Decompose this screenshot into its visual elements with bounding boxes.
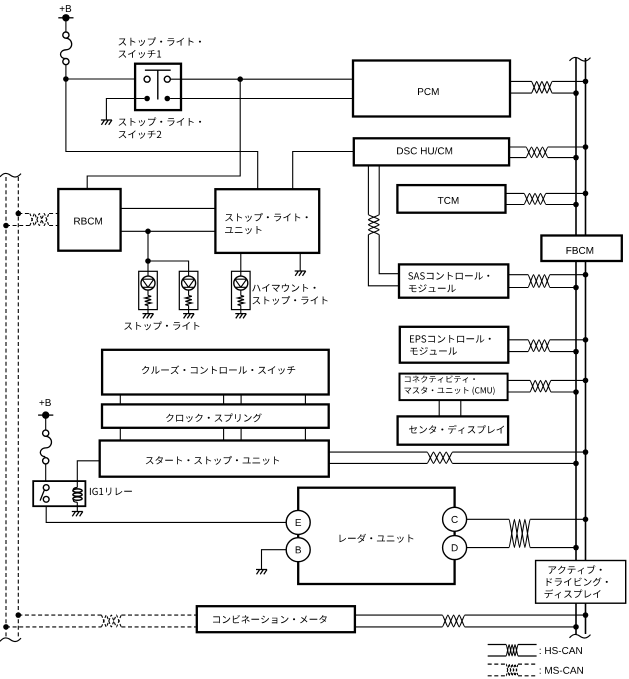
junction dot meter CAN-L xyxy=(573,624,579,630)
wire PCM to twist lower xyxy=(510,92,532,94)
label CMU line 2 xyxy=(404,387,494,395)
ground (stop light 2) xyxy=(183,314,194,319)
FBCM box xyxy=(541,236,621,262)
label EPS module line 1 xyxy=(410,335,491,343)
wire radar C to twist xyxy=(467,518,510,520)
legend HS-CAN twist xyxy=(506,645,518,657)
label stop light switch 2 line 2 xyxy=(119,130,162,138)
ground (stop light switch 2) xyxy=(101,120,112,125)
wire twist to bus lower (TCM) xyxy=(546,204,576,206)
junction dot CMU CAN-L xyxy=(573,389,579,395)
+B label (top) xyxy=(60,5,71,12)
clock spring box xyxy=(102,404,329,427)
dashed wire twist to RBCM upper xyxy=(49,213,58,215)
wire twist to bus upper (SAS) xyxy=(550,274,586,276)
wire cruise switch to clock spring 3 xyxy=(240,395,242,405)
label stop light switch 2 line 1 xyxy=(119,117,202,126)
legend HS-CAN wire lower right xyxy=(518,655,537,657)
wire branch to stop light 2 xyxy=(148,261,189,271)
SAS control module box xyxy=(399,264,508,297)
DSC HU/CM label xyxy=(397,147,452,154)
FBCM label xyxy=(567,247,594,254)
label clock spring xyxy=(166,413,262,422)
TCM label xyxy=(438,197,459,204)
IG1 relay contact upper xyxy=(43,485,49,491)
legend MS-CAN wire upper right xyxy=(518,663,537,665)
junction dot PCM CAN-H xyxy=(583,79,589,85)
wire EPS to twist lower xyxy=(508,351,528,353)
wire feed down to stop light 1 xyxy=(147,231,149,271)
combination meter box xyxy=(197,606,355,632)
wire clock spring to start stop unit 4 xyxy=(304,428,306,441)
wire twist to bus lower (SSU) xyxy=(453,462,576,464)
radar unit box xyxy=(298,488,454,584)
wire fuse to junction xyxy=(65,64,67,79)
junction dot EPS CAN-L xyxy=(573,349,579,355)
label high mount stop light line 2 xyxy=(253,296,328,305)
legend MS-CAN wire upper xyxy=(488,663,507,665)
DSC HU/CM box xyxy=(354,138,509,165)
wire bulb2 to ground xyxy=(188,310,190,314)
twisted pair SAS to HS-CAN xyxy=(528,275,550,288)
CMU box xyxy=(400,374,508,401)
wire switch2 to ground xyxy=(106,99,144,121)
dashed wire twist to meter upper xyxy=(121,614,196,616)
wire +B branch down-right to stop light unit xyxy=(66,79,258,189)
wire clock spring to start stop unit 1 xyxy=(119,428,121,441)
label EPS module line 2 xyxy=(410,347,457,355)
MS-CAN junction dot meter upper xyxy=(15,612,21,618)
junction dot SSU CAN-L xyxy=(573,461,579,467)
center display box xyxy=(398,416,509,444)
switch 1 upper contact left xyxy=(144,76,150,82)
junction dot SAS CAN-H xyxy=(583,272,589,278)
TCM box xyxy=(397,185,505,213)
MS-CAN bus right dashed line xyxy=(17,177,19,638)
label active driving display line 2 xyxy=(547,578,608,587)
HS-CAN bus right line middle segment xyxy=(585,261,587,561)
IG1 relay box xyxy=(33,481,85,506)
wire DSC HU/CM to stop light unit xyxy=(293,152,354,190)
label SAS module line 2 xyxy=(409,284,456,292)
wire cruise switch to clock spring 1 xyxy=(119,395,121,405)
twisted pair PCM to HS-CAN xyxy=(532,81,553,93)
switch 1 upper contact right xyxy=(164,76,170,82)
switch 1 plunger bar xyxy=(145,70,171,99)
wire twist to bus upper (meter) xyxy=(465,614,586,616)
switch 2 lower contact left xyxy=(144,96,150,102)
wire radar terminal B to ground xyxy=(262,550,287,570)
junction dot EPS CAN-H xyxy=(583,337,589,343)
wire TCM to twist lower xyxy=(506,204,525,206)
label high mount stop light line 1 xyxy=(252,284,315,292)
active driving display box xyxy=(536,561,626,604)
fusible link (top) xyxy=(63,32,69,38)
wire twist to bus lower (SAS) xyxy=(550,287,576,289)
HS-CAN bus left line (CAN-L) upper segment xyxy=(575,58,577,236)
junction dot TCM CAN-H xyxy=(583,191,589,197)
HS-CAN bus left line middle segment xyxy=(575,261,577,561)
stop light bulb 2 xyxy=(179,271,198,309)
wire twist to bus lower (DSC) xyxy=(548,157,576,159)
dashed wire twist to meter lower xyxy=(121,626,196,628)
wire DSC to twist upper xyxy=(509,146,526,148)
twisted pair DSC to SAS (vertical) xyxy=(368,215,379,235)
wire twist to bus lower (meter) xyxy=(465,626,576,628)
switch 2 lower contact right xyxy=(165,96,171,102)
label active driving display line 3 xyxy=(545,589,601,598)
wire twist to bus upper (DSC) xyxy=(548,146,586,148)
wire TCM to twist upper xyxy=(506,192,525,194)
wire PCM to twist upper xyxy=(510,80,532,82)
radar unit terminal C xyxy=(443,507,467,531)
junction dot DSC CAN-H xyxy=(583,144,589,150)
wire cruise switch to clock spring 2 xyxy=(223,395,225,405)
+B terminal symbol (bottom) xyxy=(42,411,49,418)
twisted pair MS-CAN to meter xyxy=(101,615,121,627)
wire twist to bus upper (TCM) xyxy=(546,192,586,194)
label stop light switch 1 line 1 xyxy=(119,37,202,46)
junction node +B/switch xyxy=(63,76,69,82)
wire CMU to twist upper xyxy=(508,379,530,381)
wire twist to bus lower (EPS) xyxy=(550,351,576,353)
wire IG1 relay coil to start stop unit xyxy=(77,461,99,481)
twisted pair CMU to HS-CAN xyxy=(530,380,551,392)
label start stop unit xyxy=(146,456,279,465)
twisted pair start stop unit to HS-CAN xyxy=(427,452,453,463)
wire start stop unit to twist upper xyxy=(329,451,427,453)
radar unit terminal B xyxy=(286,538,310,562)
wire bulb1 to ground xyxy=(147,310,149,314)
wire clock spring to start stop unit 3 xyxy=(240,428,242,441)
wire switch2 output to PCM xyxy=(170,98,353,100)
legend MS-CAN wire lower xyxy=(488,675,507,677)
junction dot radar CAN-H xyxy=(583,517,589,523)
wire switch1 branch to RBCM xyxy=(87,79,240,189)
wire RBCM to stop light unit upper xyxy=(121,207,216,209)
label IG1 relay xyxy=(90,488,132,496)
wire private CAN left to SAS lower xyxy=(368,235,399,286)
+B label (bottom) xyxy=(39,399,51,406)
wire stop light unit to high mount stop light xyxy=(240,253,242,271)
wire SAS to twist upper xyxy=(508,274,528,276)
radar unit terminal D xyxy=(443,536,467,560)
twisted pair radar to HS-CAN xyxy=(509,519,530,547)
wire switch1 output to PCM xyxy=(170,78,353,80)
MS-CAN bus bottom break squiggle xyxy=(0,638,21,642)
legend HS-CAN wire upper right xyxy=(518,644,537,646)
MS-CAN bus top break squiggle xyxy=(0,173,21,177)
HS-CAN bus left line lower segment xyxy=(575,603,577,634)
wire radar D to twist xyxy=(467,547,510,549)
wire twist to bus upper (EPS) xyxy=(550,339,586,341)
dashed wire MS-CAN to meter lower xyxy=(6,626,101,628)
label SAS module line 1 xyxy=(408,272,489,280)
PCM box xyxy=(353,61,510,117)
ground (stop light unit) xyxy=(295,271,306,276)
ground (high mount stop light) xyxy=(235,314,246,319)
junction dot PCM CAN-L xyxy=(573,90,579,96)
IG1 relay contact arm xyxy=(40,490,44,501)
wire meter to twist upper (HS) xyxy=(355,614,442,616)
wire IG1 relay output to radar terminal E xyxy=(46,506,286,522)
label stop light xyxy=(124,321,199,330)
twisted pair DSC to HS-CAN xyxy=(526,147,548,158)
label radar unit xyxy=(340,534,414,543)
wire cruise switch to clock spring 4 xyxy=(304,395,306,405)
IG1 relay coil xyxy=(76,481,78,487)
wire DSC down right to private CAN xyxy=(378,165,380,214)
label active driving display line 1 xyxy=(549,565,602,574)
junction dot SSU CAN-H xyxy=(583,449,589,455)
EPS control module box xyxy=(400,327,509,363)
junction dot TCM CAN-L xyxy=(573,202,579,208)
MS-CAN junction dot lower (CAN line to RBCM) xyxy=(3,223,9,229)
legend MS-CAN twist xyxy=(506,664,518,676)
ground (stop light 1) xyxy=(143,314,154,319)
high mount stop light bulb xyxy=(232,271,251,309)
PCM label xyxy=(418,88,439,95)
wire private CAN right to SAS upper xyxy=(379,235,399,274)
twisted pair meter to HS-CAN xyxy=(442,615,465,627)
twisted pair EPS to HS-CAN xyxy=(528,340,550,352)
legend HS-CAN wire lower xyxy=(488,655,507,657)
wire EPS to twist upper xyxy=(508,339,528,341)
label center display xyxy=(409,425,504,434)
HS-CAN bus bottom break squiggle xyxy=(570,634,591,638)
MS-CAN junction dot meter lower xyxy=(3,624,9,630)
junction dot radar CAN-L xyxy=(573,545,579,551)
twisted pair TCM to HS-CAN xyxy=(524,193,546,204)
wire +B to fuse (top) xyxy=(65,18,67,33)
wire fuse to IG1 relay xyxy=(45,464,47,482)
IG1 relay contact lower xyxy=(43,496,49,502)
wire junction to stop light switch 1 xyxy=(66,78,144,80)
junction node stop light feed xyxy=(145,229,151,235)
wire twist to bus lower (CMU) xyxy=(551,391,576,393)
wire start stop unit to twist lower xyxy=(329,462,427,464)
RBCM label xyxy=(74,218,102,225)
RBCM box xyxy=(58,189,120,251)
MS-CAN junction dot upper (CAN line to RBCM) xyxy=(15,211,21,217)
MS-CAN bus left dashed line xyxy=(5,177,7,638)
wire meter to twist lower (HS) xyxy=(355,626,442,628)
wire twist to bus upper (radar C) xyxy=(530,518,585,520)
fusible link (bottom) xyxy=(43,430,49,436)
cruise control switch box xyxy=(102,350,329,395)
radar unit terminal E xyxy=(286,510,310,534)
start stop unit box xyxy=(100,441,329,477)
stop light unit box xyxy=(215,189,319,253)
label combination meter xyxy=(213,615,327,624)
wire twist to bus upper (PCM) xyxy=(552,80,585,82)
label stop light unit line 2 xyxy=(225,226,262,234)
junction dot CMU CAN-H xyxy=(583,378,589,384)
junction dot SAS CAN-L xyxy=(573,285,579,291)
dashed wire MS-CAN to RBCM upper xyxy=(18,213,29,215)
wire +B to fuse (bottom) xyxy=(45,415,47,430)
wire twist to bus upper (CMU) xyxy=(551,379,586,381)
HS-CAN bus right line lower segment xyxy=(585,603,587,634)
wire DSC down left to private CAN xyxy=(367,165,369,214)
twisted pair MS-CAN to RBCM xyxy=(30,214,49,226)
wire CMU to center display left xyxy=(438,400,440,416)
wire twist to bus upper (SSU) xyxy=(453,451,586,453)
legend MS-CAN text xyxy=(540,667,583,674)
label stop light unit line 1 xyxy=(225,213,308,222)
HS-CAN bus right line (CAN-H) upper segment xyxy=(585,58,587,236)
wire RBCM to stop light unit lower (stop light feed) xyxy=(121,230,216,232)
wire SAS to twist lower xyxy=(508,287,528,289)
wire twist to bus lower (radar D) xyxy=(530,547,576,549)
wire stop light unit to ground (right) xyxy=(299,253,301,271)
junction dot DSC CAN-L xyxy=(573,155,579,161)
wire twist to bus lower (PCM) xyxy=(552,92,576,94)
dashed wire MS-CAN to RBCM lower xyxy=(6,225,30,227)
wire CMU to twist lower xyxy=(508,391,530,393)
junction node stop light branch xyxy=(145,258,151,264)
wire high mount bulb to ground xyxy=(240,310,242,314)
stop light switch 1 box xyxy=(135,64,181,110)
wire IG1 relay coil to ground xyxy=(76,506,78,511)
legend MS-CAN wire lower right xyxy=(518,675,537,677)
dashed wire MS-CAN to meter upper xyxy=(18,614,101,616)
label CMU line 1 xyxy=(405,375,475,382)
label cruise control switch xyxy=(142,366,295,375)
+B terminal symbol (top) xyxy=(62,14,69,21)
wire clock spring to start stop unit 2 xyxy=(223,428,225,441)
wire CMU to center display right xyxy=(460,400,462,416)
dashed wire twist to RBCM lower xyxy=(49,225,58,227)
label stop light switch 1 line 2 xyxy=(119,50,162,58)
stop light bulb 1 xyxy=(139,271,158,309)
wire DSC to twist lower xyxy=(509,157,526,159)
ground (radar unit B) xyxy=(256,570,267,575)
HS-CAN bus top break squiggle xyxy=(570,57,591,61)
legend HS-CAN wire upper xyxy=(488,644,507,646)
junction dot meter CAN-H xyxy=(583,612,589,618)
legend HS-CAN text xyxy=(540,647,582,654)
ground (IG1 relay) xyxy=(72,512,83,517)
junction node switch1/RBCM branch xyxy=(237,76,243,82)
